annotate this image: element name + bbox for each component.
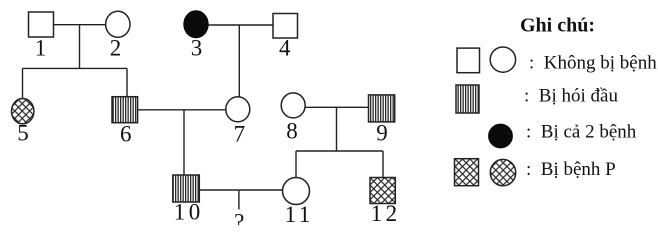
wire drop from couple 3-4 to individual 7 xyxy=(238,25,240,98)
wire sibship line children of 8-9 xyxy=(296,150,383,152)
svg-text:7: 7 xyxy=(234,121,246,146)
wire drop to unknown child ? xyxy=(238,190,240,210)
svg-text:: Bị hói đầu: : Bị hói đầu xyxy=(524,86,618,107)
svg-text:3: 3 xyxy=(191,36,203,61)
individual 6 bald male striped square xyxy=(112,97,138,147)
svg-text:12: 12 xyxy=(371,201,398,226)
svg-text:10: 10 xyxy=(174,200,201,225)
individual 1 unaffected male square xyxy=(29,12,54,61)
svg-text:?: ? xyxy=(234,210,244,228)
individual 9 bald male striped square xyxy=(369,95,395,145)
legend row1 unaffected circle xyxy=(490,47,515,72)
wire marriage line 8-9 xyxy=(305,106,369,108)
svg-text:Ghi chú:: Ghi chú: xyxy=(520,15,595,37)
individual 2 unaffected female circle xyxy=(106,11,130,60)
svg-text:9: 9 xyxy=(376,120,388,145)
wire drop from couple 1-2 xyxy=(79,25,81,69)
wire marriage line 3-4 xyxy=(208,24,273,26)
wire drop from couple 6-7 to individual 10 xyxy=(183,110,185,175)
svg-text:4: 4 xyxy=(279,36,291,61)
svg-text:2: 2 xyxy=(110,36,122,61)
wire drop to individual 11 xyxy=(295,151,297,178)
wire drop to individual 12 xyxy=(382,151,384,178)
svg-text:11: 11 xyxy=(285,202,311,227)
svg-text:1: 1 xyxy=(35,36,47,61)
legend row4 disease-P crosshatched circle xyxy=(490,159,515,185)
individual 4 unaffected male square xyxy=(273,14,298,61)
legend row1 unaffected square xyxy=(457,48,480,73)
svg-text:: Không bị bệnh: : Không bị bệnh xyxy=(529,53,657,74)
wire marriage line 10-11 xyxy=(200,189,284,191)
svg-text:5: 5 xyxy=(17,120,29,145)
individual 7 unaffected female circle xyxy=(226,97,250,147)
wire marriage line 6-7 xyxy=(138,109,226,111)
legend row2 bald striped square xyxy=(456,85,479,113)
individual 10 bald male striped square xyxy=(173,175,200,225)
legend row4 disease-P crosshatched square xyxy=(455,159,479,186)
individual 5 disease-P female crosshatched circle xyxy=(12,99,34,146)
individual 12 disease-P male crosshatched square xyxy=(370,178,397,226)
svg-text:6: 6 xyxy=(120,121,132,146)
individual 11 unaffected female circle xyxy=(283,178,311,227)
svg-text:8: 8 xyxy=(286,119,298,144)
svg-text:: Bị cả 2 bệnh: : Bị cả 2 bệnh xyxy=(526,122,637,143)
wire sibship line children of 1-2 xyxy=(23,67,128,69)
individual 8 unaffected female circle xyxy=(281,93,305,144)
wire marriage line 1-2 xyxy=(54,24,107,26)
svg-text:: Bị bệnh P: : Bị bệnh P xyxy=(526,159,616,180)
wire drop to individual 5 xyxy=(22,68,24,99)
legend row3 both-diseases black circle xyxy=(489,124,513,148)
wire drop from couple 8-9 xyxy=(336,107,338,151)
individual 3 affected both diseases female black circle xyxy=(184,11,208,61)
wire drop to individual 6 xyxy=(126,68,128,97)
